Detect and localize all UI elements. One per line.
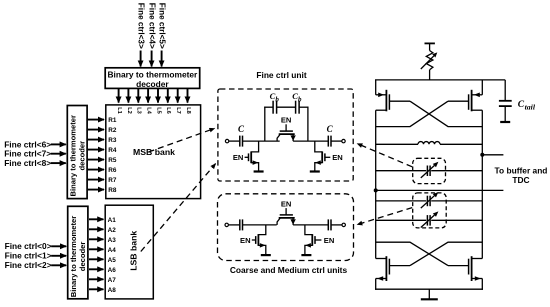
svg-text:R4: R4 — [108, 147, 117, 154]
transistor P1 (left PMOS) — [376, 90, 410, 112]
capacitor C (left) — [240, 136, 243, 147]
svg-text:L4: L4 — [146, 107, 152, 114]
variable resistor R (tail) — [421, 51, 438, 70]
svg-text:A6: A6 — [108, 267, 117, 274]
transistor N1 (left NMOS) — [376, 256, 410, 281]
svg-text:To buffer and: To buffer and — [495, 165, 548, 175]
terminal node left — [225, 139, 228, 142]
svg-text:L8: L8 — [185, 107, 191, 114]
svg-text:L7: L7 — [175, 107, 181, 114]
wire: PMOS cross-coupling — [376, 101, 483, 126]
transistor M4 (series switch, EN) — [277, 199, 296, 225]
svg-text:b: b — [275, 95, 279, 103]
terminal node right — [342, 223, 345, 226]
wire — [429, 70, 431, 80]
dashed box: Fine ctrl unit — [218, 89, 353, 181]
svg-text:EN: EN — [332, 153, 343, 162]
dashed callout arrow LSB bank to Fine ctrl unit — [141, 164, 216, 252]
decoder U3 Binary to thermometer decoder (bottom-left, vertical) — [68, 206, 88, 298]
dashed callout arrow MSB bank to Fine ctrl unit — [149, 128, 215, 152]
node (right rail, buffer tap) — [480, 153, 484, 157]
transistor M1 (series switch, EN) — [277, 116, 296, 142]
wire — [428, 289, 430, 298]
wire — [243, 224, 277, 226]
svg-text:Fine ctrl<1>: Fine ctrl<1> — [5, 251, 52, 261]
svg-text:R2: R2 — [108, 127, 117, 134]
varactor V3 — [421, 211, 439, 227]
svg-text:R1: R1 — [108, 117, 117, 124]
wires: 8 column arrows decoder U1 to MSB bank — [119, 89, 188, 103]
ground (coarse right) — [301, 254, 311, 256]
transistor M6 (right shunt, EN) with ground — [305, 225, 334, 255]
decoder U2 Binary to thermometer decoder (left, vertical) — [67, 106, 87, 199]
svg-text:Fine ctrl<3>: Fine ctrl<3> — [136, 3, 145, 49]
svg-text:EN: EN — [281, 199, 292, 208]
svg-text:decoder: decoder — [77, 141, 86, 171]
transistor N2 (right NMOS) — [448, 256, 482, 281]
ground (tail) — [421, 298, 438, 300]
svg-text:R6: R6 — [108, 167, 117, 174]
transistor M2 (left shunt, EN) with ground — [233, 141, 259, 171]
svg-text:b: b — [298, 95, 302, 103]
wire — [228, 224, 239, 226]
wire: middle rail with node — [376, 189, 483, 191]
wire — [293, 224, 328, 226]
svg-text:R3: R3 — [108, 137, 117, 144]
terminal node left — [225, 223, 228, 226]
transistor M3 (right shunt, EN) with ground — [315, 141, 343, 171]
capacitor C (right) — [328, 136, 331, 147]
wire arrows into decoder U3 — [51, 246, 66, 265]
svg-text:A4: A4 — [108, 247, 117, 254]
svg-text:EN: EN — [281, 116, 292, 125]
svg-text:L1: L1 — [116, 107, 122, 114]
svg-text:EN: EN — [233, 153, 244, 162]
wire — [293, 140, 328, 142]
svg-text:Fine ctrl<0>: Fine ctrl<0> — [5, 241, 52, 251]
svg-text:C: C — [327, 124, 334, 134]
svg-text:decoder: decoder — [136, 79, 169, 89]
svg-text:MSB bank: MSB bank — [133, 147, 175, 157]
wire — [331, 140, 342, 142]
wire — [331, 224, 342, 226]
LSB row pin labels A1-A8 — [108, 217, 117, 294]
svg-text:L3: L3 — [136, 107, 142, 114]
wire — [243, 140, 280, 142]
LSB bank block — [105, 205, 153, 299]
varactor V2 — [421, 192, 439, 208]
capacitor Ctail — [499, 80, 512, 122]
svg-text:A5: A5 — [108, 257, 117, 264]
ground (fine left) — [254, 170, 264, 172]
svg-text:Fine ctrl<2>: Fine ctrl<2> — [5, 260, 52, 270]
wire: right branch down from Cb loop — [307, 107, 309, 142]
svg-text:Coarse and Medium ctrl units: Coarse and Medium ctrl units — [230, 265, 348, 275]
svg-text:A7: A7 — [108, 277, 117, 284]
wire — [229, 140, 240, 142]
wire: left branch up to Cb loop — [264, 107, 266, 142]
svg-text:A1: A1 — [108, 217, 117, 224]
capacitor Cb (right) — [296, 101, 300, 114]
wire: NMOS cross-coupling — [376, 242, 483, 265]
wire: tap to buffer (bottom) — [482, 189, 503, 191]
svg-text:A3: A3 — [108, 237, 117, 244]
wire arrow into decoder U1 input 3 — [161, 51, 163, 67]
wire: right rail segments — [481, 80, 483, 290]
wire — [429, 43, 431, 50]
ground (coarse left) — [261, 254, 271, 256]
svg-text:L2: L2 — [126, 107, 132, 114]
svg-text:Fine ctrl<8>: Fine ctrl<8> — [4, 158, 51, 168]
svg-text:R8: R8 — [108, 187, 117, 194]
ground (fine right) — [310, 170, 320, 172]
inductor L1 — [376, 142, 483, 145]
svg-text:EN: EN — [324, 236, 335, 245]
wire: top supply rail — [375, 79, 505, 81]
decoder U1 Binary to thermometer decoder (top) — [105, 68, 200, 89]
svg-text:L5: L5 — [155, 107, 161, 114]
varactor V1 — [421, 162, 439, 178]
svg-text:LSB bank: LSB bank — [128, 231, 138, 271]
capacitor (coarse left) — [240, 219, 243, 230]
wires: 8 row arrows decoder U2 to MSB bank — [88, 120, 104, 190]
svg-text:Fine ctrl<4>: Fine ctrl<4> — [147, 3, 156, 49]
supply terminal bar — [425, 42, 435, 44]
transistor P2 (right PMOS) — [448, 90, 482, 112]
svg-text:Fine ctrl unit: Fine ctrl unit — [256, 70, 306, 80]
dashed callout arrow varactor box 1 to Fine ctrl unit — [357, 144, 412, 167]
capacitor (coarse right) — [328, 219, 331, 230]
wire: left rail segments — [375, 80, 377, 290]
wires: 8 row arrows decoder U3 to LSB bank — [89, 219, 103, 289]
svg-text:L6: L6 — [165, 107, 171, 114]
svg-text:Fine ctrl<5>: Fine ctrl<5> — [157, 3, 166, 49]
svg-text:R7: R7 — [108, 177, 117, 184]
svg-text:C: C — [238, 124, 245, 134]
wire: varactor rail 2 — [376, 200, 483, 202]
MSB bank block — [106, 105, 201, 199]
dashed box: varactor 1 (fine) — [413, 158, 446, 183]
svg-text:A8: A8 — [108, 287, 117, 294]
wire arrow into decoder U1 input 2 — [151, 51, 153, 67]
dashed callout arrow varactor box 2 to Coarse and Medium ctrl units — [357, 208, 412, 225]
svg-text:R5: R5 — [108, 157, 117, 164]
capacitor Cb (left) — [273, 101, 277, 114]
wire arrows into decoder U2 — [51, 144, 66, 163]
wire: tap to buffer (top) — [482, 154, 503, 156]
wire: Cb top rail segments — [264, 106, 308, 108]
wire: varactor rail 1 — [376, 170, 483, 172]
wire arrow into decoder U1 input 1 — [140, 51, 142, 67]
wire: bottom tail rail — [375, 288, 483, 290]
dashed box: varactors 2-3 (coarse/medium) — [413, 193, 447, 228]
svg-text:decoder: decoder — [78, 242, 87, 272]
node (left rail) — [374, 188, 378, 192]
svg-text:tail: tail — [525, 103, 536, 112]
MSB row pin labels R1-R8 — [108, 117, 117, 194]
svg-text:TDC: TDC — [512, 175, 529, 185]
wire: varactor rail 3 — [376, 219, 483, 221]
svg-text:EN: EN — [240, 236, 251, 245]
terminal node right — [342, 139, 345, 142]
transistor M5 (left shunt, EN) with ground — [240, 225, 266, 255]
dashed box: Coarse and Medium ctrl units — [218, 194, 354, 261]
MSB column pin labels L1-L8 (rotated) — [116, 107, 191, 114]
svg-text:A2: A2 — [108, 227, 117, 234]
